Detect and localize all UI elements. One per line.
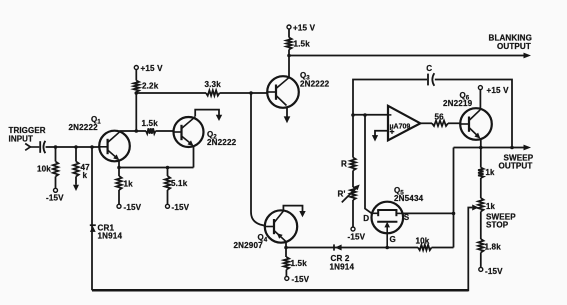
- transistor Q5 2N5434 JFET: [372, 202, 404, 234]
- Q6 emitter arrow: [474, 133, 480, 139]
- wire source line: [403, 212, 454, 214]
- resistor 1.5k (Q3 collector): [288, 29, 290, 38]
- node 5.1k junction: [166, 166, 170, 170]
- resistor 1k (Q1 emitter): [116, 176, 121, 190]
- node gate junction: [385, 246, 389, 250]
- terminal +15V Q6: [479, 90, 481, 109]
- svg-text:STOP: STOP: [486, 221, 509, 230]
- variable resistor R': [350, 187, 355, 200]
- wire wiper riser: [468, 208, 472, 292]
- wire bottom rail: [92, 289, 468, 292]
- svg-text:1N914: 1N914: [98, 232, 123, 241]
- svg-text:+15 V: +15 V: [293, 24, 316, 33]
- node inverting input junction: [351, 113, 355, 117]
- svg-text:+15 V: +15 V: [487, 86, 510, 95]
- svg-text:1k: 1k: [124, 180, 134, 189]
- node junction CR1: [90, 145, 94, 149]
- wire emitter bus: [119, 167, 194, 169]
- ground arrow at + input: [372, 135, 378, 141]
- svg-text:2N2222: 2N2222: [207, 138, 237, 147]
- terminal -15V below 1k: [117, 204, 121, 208]
- blanking output arrow: [524, 53, 532, 59]
- terminal -15V below 5.1k: [166, 204, 170, 208]
- node junction 47k: [74, 145, 78, 149]
- svg-text:OUTPUT: OUTPUT: [499, 162, 533, 171]
- resistor 1.5k (Q4 emitter): [284, 257, 289, 270]
- wire collector bus y93: [136, 92, 206, 94]
- op-amp U1 uA709: [388, 106, 420, 141]
- wire bus to Q4 base: [251, 93, 265, 226]
- wire inverting input: [353, 114, 388, 116]
- Q1 emitter arrow: [113, 154, 119, 160]
- svg-text:-15V: -15V: [292, 275, 310, 284]
- wire Q1 emitter to 1k: [118, 160, 120, 177]
- svg-text:k: k: [83, 171, 88, 180]
- node Q4-drop junction: [249, 91, 253, 95]
- wire non-inverting input: [375, 131, 388, 136]
- svg-text:1.5k: 1.5k: [142, 119, 159, 128]
- svg-text:1.8k: 1.8k: [485, 243, 502, 252]
- svg-text:G: G: [390, 235, 396, 244]
- terminal -15V bottom right: [479, 267, 483, 271]
- wire CR1 column: [91, 147, 93, 290]
- wire 2.2k to 1.5k line: [135, 92, 137, 131]
- input coupling capacitor: [30, 146, 39, 148]
- wire Q4 emitter down: [285, 242, 287, 257]
- potentiometer 1k sweep stop: [478, 198, 483, 212]
- svg-text:INPUT: INPUT: [9, 135, 34, 144]
- svg-text:56: 56: [435, 113, 445, 122]
- terminal -15V below R': [351, 227, 355, 231]
- terminal -15V below 10k: [54, 188, 58, 192]
- svg-text:R: R: [341, 160, 347, 169]
- terminal +15V Q3: [287, 25, 291, 29]
- resistor 3.3k: [206, 90, 220, 95]
- node Q4 emitter junction: [284, 246, 288, 250]
- transistor Q4 2N2907: [265, 210, 297, 242]
- svg-text:µA709: µA709: [390, 123, 411, 130]
- svg-text:-15V: -15V: [485, 267, 503, 276]
- svg-text:2N2907: 2N2907: [234, 241, 264, 250]
- resistor 1.8k: [478, 239, 483, 253]
- wire blanking output line: [289, 55, 525, 57]
- R' wiper arrowhead: [354, 185, 360, 191]
- resistor 1.5k (Q1-Q2): [119, 130, 146, 132]
- svg-text:1N914: 1N914: [330, 263, 355, 272]
- resistor 56: [420, 122, 432, 124]
- node sweep-C junction: [510, 146, 514, 150]
- svg-text:+15 V: +15 V: [141, 64, 164, 73]
- wire sweep riser x453: [453, 148, 455, 248]
- node bus junction: [135, 91, 139, 95]
- node emitter junction: [117, 166, 121, 170]
- transistor Q1 2N2222: [99, 131, 130, 162]
- wire C to sweep node: [435, 80, 512, 148]
- svg-text:2N5434: 2N5434: [394, 194, 424, 203]
- wire trigger line: [46, 146, 100, 148]
- svg-text:R': R': [338, 190, 346, 199]
- wire Q2 emitter down: [193, 146, 195, 168]
- wiper arrow into pot: [472, 205, 478, 211]
- wire Q6 emitter to sweep: [480, 138, 482, 148]
- wire 10k to riser: [432, 247, 454, 249]
- Q5 gate arrow: [384, 222, 390, 228]
- node junction 10k: [54, 145, 58, 149]
- svg-text:-15V: -15V: [172, 203, 190, 212]
- svg-text:D: D: [363, 214, 369, 223]
- terminal +15V left: [134, 66, 138, 70]
- svg-text:-15V: -15V: [348, 233, 366, 242]
- svg-text:2.2k: 2.2k: [142, 82, 159, 91]
- wire sweep output line: [454, 147, 525, 149]
- svg-text:-15V: -15V: [124, 203, 142, 212]
- terminal -15V below Q4: [285, 276, 289, 280]
- svg-text:10k: 10k: [416, 237, 430, 246]
- wire C feedback top: [353, 80, 427, 116]
- svg-text:2N2219: 2N2219: [443, 99, 473, 108]
- Q4 collector pointer arrow: [283, 206, 302, 212]
- svg-text:-15V: -15V: [46, 194, 64, 203]
- svg-text:2N2222: 2N2222: [300, 80, 330, 89]
- transistor Q6 2N2219: [460, 108, 492, 140]
- resistor 1k (upper right): [480, 148, 482, 168]
- wire drain line: [365, 115, 372, 213]
- svg-text:10k: 10k: [37, 165, 51, 174]
- svg-text:3.3k: 3.3k: [205, 80, 222, 89]
- diode CR2: [333, 244, 335, 250]
- arrow below 47k: [73, 185, 79, 191]
- svg-text:OUTPUT: OUTPUT: [497, 42, 531, 51]
- resistor R: [352, 115, 354, 158]
- svg-text:1.5k: 1.5k: [294, 40, 311, 49]
- node drain junction: [363, 113, 367, 117]
- Q4 emitter arrow (pnp): [277, 233, 283, 239]
- wire CR2 line: [286, 247, 418, 249]
- svg-text:C: C: [426, 64, 432, 73]
- sweep output arrow: [524, 145, 532, 151]
- transistor Q3 2N2222: [267, 76, 299, 108]
- resistor 2.2k: [135, 70, 137, 81]
- resistor 10k (gate): [418, 245, 432, 250]
- node source junction: [452, 212, 456, 216]
- node blanking junction: [287, 54, 291, 58]
- svg-text:5.1k: 5.1k: [171, 179, 188, 188]
- transistor Q2 2N2222: [174, 117, 204, 147]
- trigger input arrow: [25, 144, 30, 151]
- Q2 emitter arrow: [188, 140, 194, 146]
- Q2 collector pointer arrow: [195, 110, 219, 117]
- wire 3.3k to Q3 base: [220, 92, 268, 94]
- svg-text:1k: 1k: [486, 168, 495, 177]
- diode CR1: [90, 224, 96, 226]
- resistor 5.1k: [167, 168, 169, 177]
- svg-text:2N2222: 2N2222: [69, 123, 99, 132]
- resistor 10k: [55, 147, 57, 162]
- node 1.5k line junction: [135, 129, 139, 133]
- capacitor C: [427, 74, 429, 86]
- resistor 47k: [75, 147, 77, 162]
- node sweep-emitter junction: [479, 146, 483, 150]
- Q3 emitter arrow down: [286, 107, 288, 117]
- svg-text:1k: 1k: [486, 202, 495, 211]
- svg-text:1.5k: 1.5k: [291, 259, 308, 268]
